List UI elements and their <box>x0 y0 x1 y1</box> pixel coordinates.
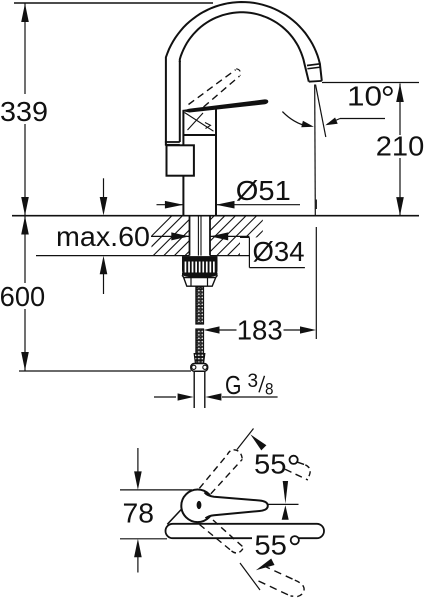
outlet 10-degree slanted line <box>316 85 326 138</box>
spout tube outer arc <box>166 2 322 81</box>
svg-text:G: G <box>225 370 242 400</box>
nut flange corner left <box>182 275 184 277</box>
spout riser inner line <box>179 61 181 142</box>
shank inner line left <box>197 216 199 256</box>
dimension 339 vertical line upper part <box>24 4 26 95</box>
extension line top of spout (339 ref) <box>14 2 213 4</box>
spout riser outer line <box>165 61 167 145</box>
outlet vertical reference line <box>314 85 317 216</box>
braided hose lower section <box>196 329 204 354</box>
dimension Ø51 line right <box>216 204 300 206</box>
mounting nut top band <box>182 256 218 260</box>
nut flange corner right <box>216 275 218 277</box>
dimension 600 vertical line lower part <box>24 309 26 371</box>
dimension Ø34 arrow left <box>151 235 189 237</box>
base cone tangent line <box>167 506 184 524</box>
Ø34 label underline <box>249 267 305 269</box>
handle swung up dashed edge left <box>199 455 227 489</box>
top view extension line lower (78 ref) <box>120 538 167 540</box>
lever underside line <box>183 108 217 111</box>
dimension 600 vertical line upper part <box>24 216 26 283</box>
spout swung dashed piece bottom <box>263 566 295 581</box>
angle arc arrowhead bottom <box>256 559 275 571</box>
trapezoid panel line right <box>207 278 209 287</box>
dimension 339 arrow up <box>21 4 29 23</box>
svg-text:10: 10 <box>347 81 382 112</box>
extension line spout outlet (210 ref) <box>322 82 419 84</box>
shank hole left edge <box>189 216 191 256</box>
svg-text:3: 3 <box>248 371 259 392</box>
svg-text:183: 183 <box>237 315 283 346</box>
spout swung dashed piece top <box>297 462 306 465</box>
body-column left edge lower <box>182 176 184 216</box>
body-column left edge upper <box>182 111 184 146</box>
lever plan arm <box>205 492 268 518</box>
connection tube left edge <box>193 371 195 408</box>
mounting nut lower band <box>182 273 218 278</box>
handle swung up dashed edge right <box>211 459 243 494</box>
body plan circle <box>181 490 214 523</box>
dimension max.60 arrow down above counter <box>103 178 105 200</box>
dimension 339 arrow down <box>21 197 29 216</box>
angle arc arrowhead top <box>250 434 266 450</box>
lever blade (solid black) <box>183 100 268 112</box>
dimension 78 lower arrow <box>137 556 139 573</box>
spout plan bar <box>166 524 325 538</box>
svg-text:Ø51: Ø51 <box>236 175 291 206</box>
dimension 210 line upper <box>399 84 401 136</box>
mounting nut knurled ribs <box>182 259 218 275</box>
svg-text:600: 600 <box>0 281 45 312</box>
extension line 183 stub <box>315 200 317 210</box>
svg-text:8: 8 <box>265 379 274 398</box>
lever axis extension line <box>268 503 299 505</box>
angle leg line top <box>237 429 254 450</box>
dimension max.60 arrow up below counter <box>103 272 105 294</box>
angle leg line bottom <box>240 563 260 590</box>
dimension Ø51 line left <box>157 204 184 206</box>
dimension 183 arrow left <box>204 326 220 333</box>
top view extension line upper (78 ref) <box>120 489 192 491</box>
label 55 bottom <box>252 535 291 543</box>
countertop underside line right <box>210 255 249 257</box>
countertop underside line left <box>36 255 190 257</box>
lever raised tip dashed curl <box>236 69 240 76</box>
dimension 600 arrow down <box>21 352 29 371</box>
svg-text:55: 55 <box>254 449 287 480</box>
dimension 339 vertical line lower part <box>24 124 26 216</box>
label 10 degree circle <box>384 87 392 95</box>
side box (mounting base) <box>167 145 194 175</box>
dimension 78 upper arrow <box>137 448 139 474</box>
spout aerator second line <box>307 67 320 69</box>
lever raised position dashed line 2 <box>204 76 240 107</box>
handle swung down dashed edge right <box>213 520 243 547</box>
nut lower trapezoid <box>184 278 216 287</box>
rotation curved arrow <box>282 112 308 127</box>
Ø34 label notch top line <box>240 236 249 238</box>
body interior diagonal B <box>188 113 204 130</box>
countertop top line <box>12 215 419 217</box>
lever screw hole <box>197 501 202 509</box>
handle swung down dashed edge left <box>200 525 232 551</box>
fraction slash <box>259 376 265 393</box>
dimension 183 line right <box>284 329 301 331</box>
svg-text:78: 78 <box>123 498 155 529</box>
label 55 top degree circle <box>290 456 298 464</box>
label 55 bottom degree circle <box>291 536 299 544</box>
handle swung down dashed cap <box>232 547 243 553</box>
svg-text:210: 210 <box>376 130 424 161</box>
body interior chevron dash <box>205 123 211 129</box>
spout tube inner arc <box>180 12 309 81</box>
riser step line lower (box top left) <box>165 144 180 146</box>
spout aerator top cut line <box>307 64 320 66</box>
shank inner line right <box>200 216 202 256</box>
body interior diagonal A <box>185 113 214 132</box>
trapezoid panel line left <box>190 278 192 287</box>
Ø34 label notch left line <box>248 237 250 267</box>
hose end nut right circle <box>203 365 207 369</box>
label 10-degree leader <box>340 118 385 120</box>
handle swung up dashed cap <box>227 450 242 460</box>
body-column right edge <box>215 108 217 216</box>
riser step line upper <box>165 141 180 143</box>
narrow angle arrow lower <box>282 505 289 520</box>
reference line hose end (600 ref) <box>19 370 191 372</box>
svg-text:Ø34: Ø34 <box>253 236 305 267</box>
svg-text:339: 339 <box>0 96 48 127</box>
narrow angle arrow upper <box>283 481 288 504</box>
dimension G3/8 arrow right <box>205 393 221 400</box>
lever raised position dashed line 1 <box>189 70 236 105</box>
spout outlet bottom edge <box>309 80 322 83</box>
shank hole right edge <box>209 216 211 256</box>
dimension 600 arrow up at counter <box>21 216 29 235</box>
hose end nut left circle <box>192 365 196 369</box>
dimension G3/8 arrow left <box>154 396 176 398</box>
hose crimp ferrule <box>194 354 205 363</box>
svg-text:max.60: max.60 <box>56 221 150 252</box>
dimension 210 line lower <box>399 158 401 216</box>
hose end nut <box>191 364 208 372</box>
body joint line <box>183 134 216 136</box>
dimension Ø34 arrow right leader <box>210 235 249 237</box>
svg-text:55: 55 <box>254 529 287 560</box>
extension line 183 <box>315 227 317 339</box>
connection tube right edge <box>204 371 206 408</box>
